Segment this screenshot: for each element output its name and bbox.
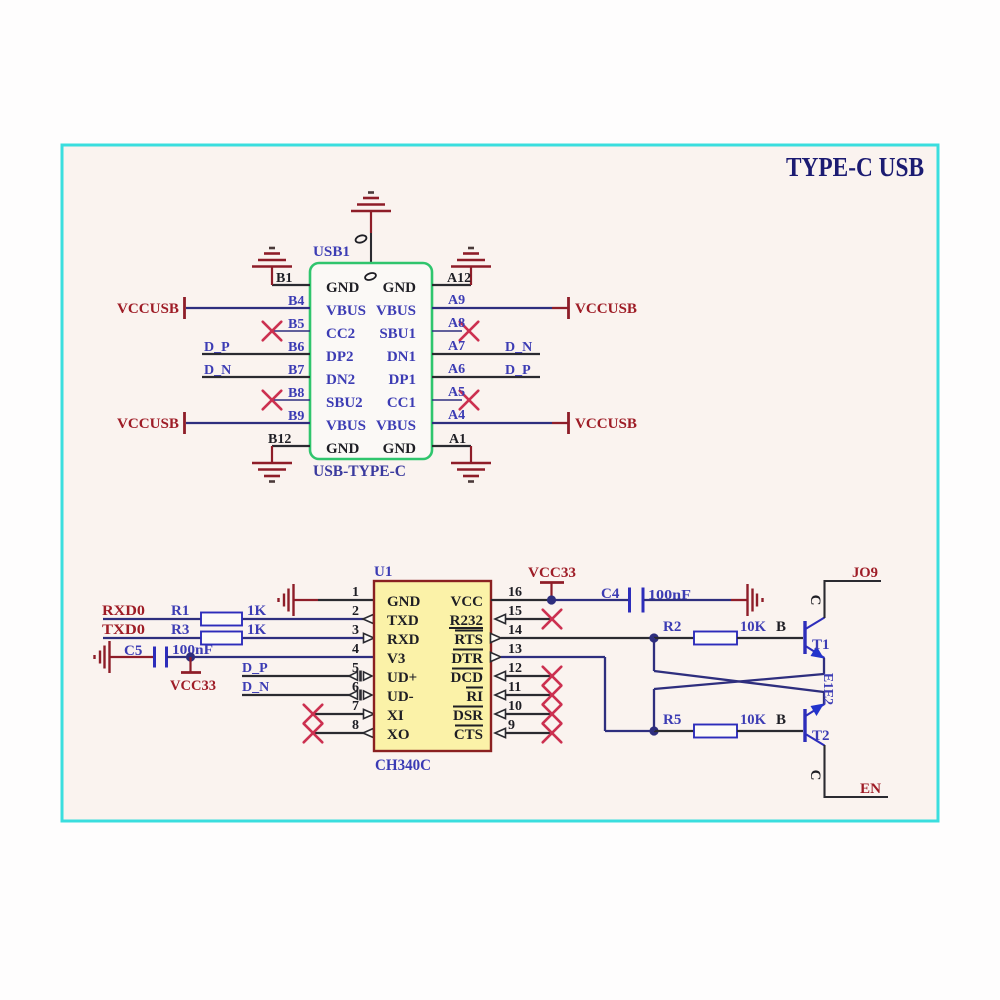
svg-text:C5: C5	[124, 643, 142, 659]
wire cross to T2 emitter	[654, 671, 824, 692]
pin A9 wire	[432, 307, 552, 309]
wire R5 junction up	[653, 689, 655, 731]
pin 12 wire (no connect)	[495, 671, 506, 680]
svg-text:D_P: D_P	[204, 340, 230, 355]
pin 8 arrow	[363, 728, 374, 737]
svg-text:B5: B5	[288, 317, 304, 332]
pin 16 wire	[491, 599, 552, 601]
svg-text:XO: XO	[387, 727, 410, 743]
svg-text:UD-: UD-	[387, 689, 414, 705]
pin A7 wire	[432, 353, 540, 355]
resistor R3	[201, 632, 242, 645]
pin B7 wire	[202, 376, 310, 378]
svg-text:R3: R3	[171, 622, 189, 638]
svg-text:DN2: DN2	[326, 372, 355, 388]
svg-text:A9: A9	[448, 293, 465, 308]
svg-text:RTS: RTS	[454, 632, 483, 648]
svg-text:B8: B8	[288, 386, 304, 401]
pin B6 wire	[202, 353, 310, 355]
svg-text:13: 13	[508, 642, 522, 657]
svg-text:A6: A6	[448, 362, 465, 377]
IC U1 CH340C body	[374, 581, 491, 751]
svg-text:1K: 1K	[247, 603, 267, 619]
svg-text:9: 9	[508, 718, 515, 733]
svg-text:DN1: DN1	[387, 349, 416, 365]
svg-text:5: 5	[352, 661, 359, 676]
svg-text:R5: R5	[663, 712, 681, 728]
pin A4 wire	[432, 422, 552, 424]
ground (B12)	[252, 463, 292, 482]
svg-text:B12: B12	[268, 432, 291, 447]
pin 8 wire (no connect)	[313, 732, 364, 734]
svg-text:C4: C4	[601, 586, 620, 602]
wire R5 to T2 base	[737, 730, 803, 732]
ground (C4)	[748, 584, 763, 616]
svg-text:VBUS: VBUS	[326, 303, 366, 319]
junction (R5)	[649, 726, 658, 735]
svg-text:GND: GND	[326, 441, 360, 457]
T1 emitter wire	[823, 658, 825, 674]
svg-text:1: 1	[352, 585, 359, 600]
svg-text:A8: A8	[448, 316, 465, 331]
svg-text:11: 11	[508, 680, 521, 695]
pin 4 wire	[167, 656, 374, 658]
no-connect X (pin 9)	[543, 724, 562, 743]
transistor T1	[805, 618, 825, 659]
svg-text:DP1: DP1	[389, 372, 417, 388]
svg-text:VBUS: VBUS	[376, 303, 416, 319]
svg-text:D_N: D_N	[204, 363, 231, 378]
ground (C5)	[95, 641, 110, 673]
svg-text:SBU1: SBU1	[379, 326, 416, 342]
svg-text:TYPE-C USB: TYPE-C USB	[786, 152, 924, 182]
no-connect X (pin 12)	[543, 667, 562, 686]
svg-text:VBUS: VBUS	[376, 418, 416, 434]
ground (B1)	[252, 248, 292, 267]
pin 3 arrow	[364, 633, 375, 642]
pin B12 wire	[272, 445, 310, 447]
svg-text:DCD: DCD	[451, 670, 484, 686]
svg-text:14: 14	[508, 623, 522, 638]
pin 6 bidir arrows	[349, 691, 358, 699]
wire cross to T1 emitter	[654, 674, 824, 689]
pin B9 wire	[186, 422, 310, 424]
pin 0 marker (outside)	[355, 234, 368, 244]
power VCC33 (lower)	[189, 657, 191, 672]
svg-text:DTR: DTR	[451, 651, 483, 667]
svg-text:GND: GND	[383, 280, 417, 296]
power VCC33 (upper)	[550, 584, 552, 601]
no-connect X (pin 7)	[304, 705, 323, 724]
svg-text:D_P: D_P	[505, 363, 531, 378]
svg-text:RXD0: RXD0	[102, 603, 145, 619]
svg-text:VCC33: VCC33	[170, 678, 216, 694]
svg-text:3: 3	[352, 623, 359, 638]
svg-text:C: C	[807, 595, 823, 606]
pin A1 wire	[432, 445, 471, 447]
wire shield to connector	[370, 233, 372, 263]
svg-text:CC2: CC2	[326, 326, 355, 342]
svg-text:VCC33: VCC33	[528, 565, 576, 581]
svg-text:R1: R1	[171, 603, 189, 619]
pin 15 wire (no connect)	[495, 614, 506, 623]
svg-text:JO9: JO9	[852, 565, 878, 581]
pin 7 wire (no connect)	[313, 713, 364, 715]
no-connect X (pin 15)	[543, 610, 562, 629]
pin A5 wire (no connect)	[432, 399, 462, 401]
pin 0 marker (inside)	[364, 272, 377, 282]
pin 10 wire (no connect)	[495, 709, 506, 718]
ground (A12)	[451, 248, 491, 267]
svg-text:8: 8	[352, 718, 359, 733]
ground (pin 1)	[279, 584, 294, 616]
svg-text:15: 15	[508, 604, 522, 619]
capacitor C4	[630, 588, 644, 613]
svg-text:1K: 1K	[247, 622, 267, 638]
wire R2 to T1 base	[737, 637, 803, 639]
svg-text:6: 6	[352, 680, 359, 695]
svg-text:2: 2	[352, 604, 359, 619]
no-connect X (pin 11)	[543, 686, 562, 705]
svg-text:B9: B9	[288, 409, 304, 424]
ground (A1)	[451, 463, 491, 482]
svg-text:DP2: DP2	[326, 349, 354, 365]
svg-text:A1: A1	[449, 432, 466, 447]
wire to C4	[552, 599, 629, 601]
svg-text:TXD: TXD	[387, 613, 419, 629]
svg-text:CH340C: CH340C	[375, 757, 431, 774]
svg-text:D_P: D_P	[242, 661, 268, 676]
svg-text:SBU2: SBU2	[326, 395, 363, 411]
svg-text:A5: A5	[448, 385, 465, 400]
no-connect X (B5)	[263, 322, 282, 341]
wire R2 junction down	[653, 638, 655, 671]
resistor R1	[201, 613, 242, 626]
svg-text:VCC: VCC	[451, 594, 484, 610]
svg-text:E2: E2	[820, 689, 835, 705]
svg-text:VBUS: VBUS	[326, 418, 366, 434]
ground (top, shield pin 0)	[351, 193, 391, 212]
pin 7 arrow	[364, 709, 375, 718]
junction (V3/C5)	[186, 652, 195, 661]
T2 collector wire to EN	[825, 745, 889, 797]
svg-text:UD+: UD+	[387, 670, 417, 686]
junction (R2)	[649, 633, 658, 642]
svg-text:USB-TYPE-C: USB-TYPE-C	[313, 463, 406, 480]
pin 3 wire	[103, 637, 364, 639]
pin A8 wire (no connect)	[432, 330, 462, 332]
schematic frame	[62, 145, 938, 821]
svg-text:7: 7	[352, 699, 359, 714]
svg-text:B4: B4	[288, 294, 304, 309]
wire C4 to ground	[644, 599, 731, 601]
svg-text:RXD: RXD	[387, 632, 420, 648]
svg-text:DSR: DSR	[453, 708, 483, 724]
transistor T2	[805, 704, 825, 746]
svg-text:A7: A7	[448, 339, 465, 354]
svg-text:U1: U1	[374, 564, 392, 580]
no-connect X (B8)	[263, 391, 282, 410]
pin 5 bidir arrows	[349, 672, 358, 680]
T2 emitter wire	[823, 692, 825, 704]
svg-text:A4: A4	[448, 408, 465, 423]
svg-text:B: B	[776, 712, 786, 728]
pin 14 wire	[491, 633, 502, 642]
pin A6 wire	[432, 376, 540, 378]
svg-text:10: 10	[508, 699, 522, 714]
svg-text:V3: V3	[387, 651, 405, 667]
svg-text:4: 4	[352, 642, 359, 657]
svg-text:R2: R2	[663, 619, 681, 635]
pin B8 wire (no connect)	[272, 399, 310, 401]
svg-text:GND: GND	[383, 441, 417, 457]
svg-text:10K: 10K	[740, 619, 766, 635]
svg-text:D_N: D_N	[242, 680, 269, 695]
resistor R5	[694, 725, 737, 738]
svg-text:VCCUSB: VCCUSB	[575, 416, 637, 432]
svg-text:RI: RI	[466, 689, 483, 705]
svg-text:XI: XI	[387, 708, 404, 724]
svg-text:VCCUSB: VCCUSB	[575, 301, 637, 317]
svg-text:R232: R232	[450, 613, 483, 629]
svg-text:CC1: CC1	[387, 395, 416, 411]
svg-text:T1: T1	[812, 637, 830, 653]
svg-text:B1: B1	[276, 271, 292, 286]
svg-text:B: B	[776, 619, 786, 635]
pin B1 wire	[272, 284, 310, 286]
svg-text:C: C	[807, 770, 823, 781]
svg-text:TXD0: TXD0	[102, 622, 145, 638]
pin B5 wire (no connect)	[272, 330, 310, 332]
svg-text:USB1: USB1	[313, 244, 350, 260]
no-connect X (A5)	[460, 391, 479, 410]
svg-text:10K: 10K	[740, 712, 766, 728]
wire gnd to C5	[110, 656, 154, 658]
no-connect X (pin 10)	[543, 705, 562, 724]
pin 6 wire	[242, 694, 350, 696]
resistor R2	[694, 632, 737, 645]
junction (pin16)	[547, 595, 556, 604]
pin 9 wire (no connect)	[495, 728, 506, 737]
no-connect X (A8)	[460, 322, 479, 341]
svg-text:B7: B7	[288, 363, 304, 378]
svg-text:E1: E1	[820, 673, 835, 689]
svg-text:D_N: D_N	[505, 340, 532, 355]
svg-text:EN: EN	[860, 781, 881, 797]
svg-text:T2: T2	[812, 728, 830, 744]
T1 collector wire to JO9	[825, 581, 882, 618]
svg-text:A12: A12	[447, 271, 471, 286]
pin B4 wire	[186, 307, 310, 309]
pin 2 arrow	[363, 614, 374, 623]
svg-text:VCCUSB: VCCUSB	[117, 416, 179, 432]
svg-text:16: 16	[508, 585, 522, 600]
svg-text:GND: GND	[387, 594, 421, 610]
svg-text:GND: GND	[326, 280, 360, 296]
pin 5 wire	[242, 675, 350, 677]
pin 1 wire	[294, 599, 318, 601]
no-connect X (pin 8)	[304, 724, 323, 743]
svg-text:B6: B6	[288, 340, 304, 355]
svg-text:CTS: CTS	[454, 727, 483, 743]
pin 13 wire	[491, 652, 502, 661]
connector USB1 body	[310, 263, 432, 459]
svg-text:VCCUSB: VCCUSB	[117, 301, 179, 317]
capacitor C5	[155, 647, 167, 668]
pin 2 wire	[103, 618, 364, 620]
pin A12 wire	[432, 284, 471, 286]
svg-text:12: 12	[508, 661, 522, 676]
pin 11 wire (no connect)	[495, 690, 506, 699]
